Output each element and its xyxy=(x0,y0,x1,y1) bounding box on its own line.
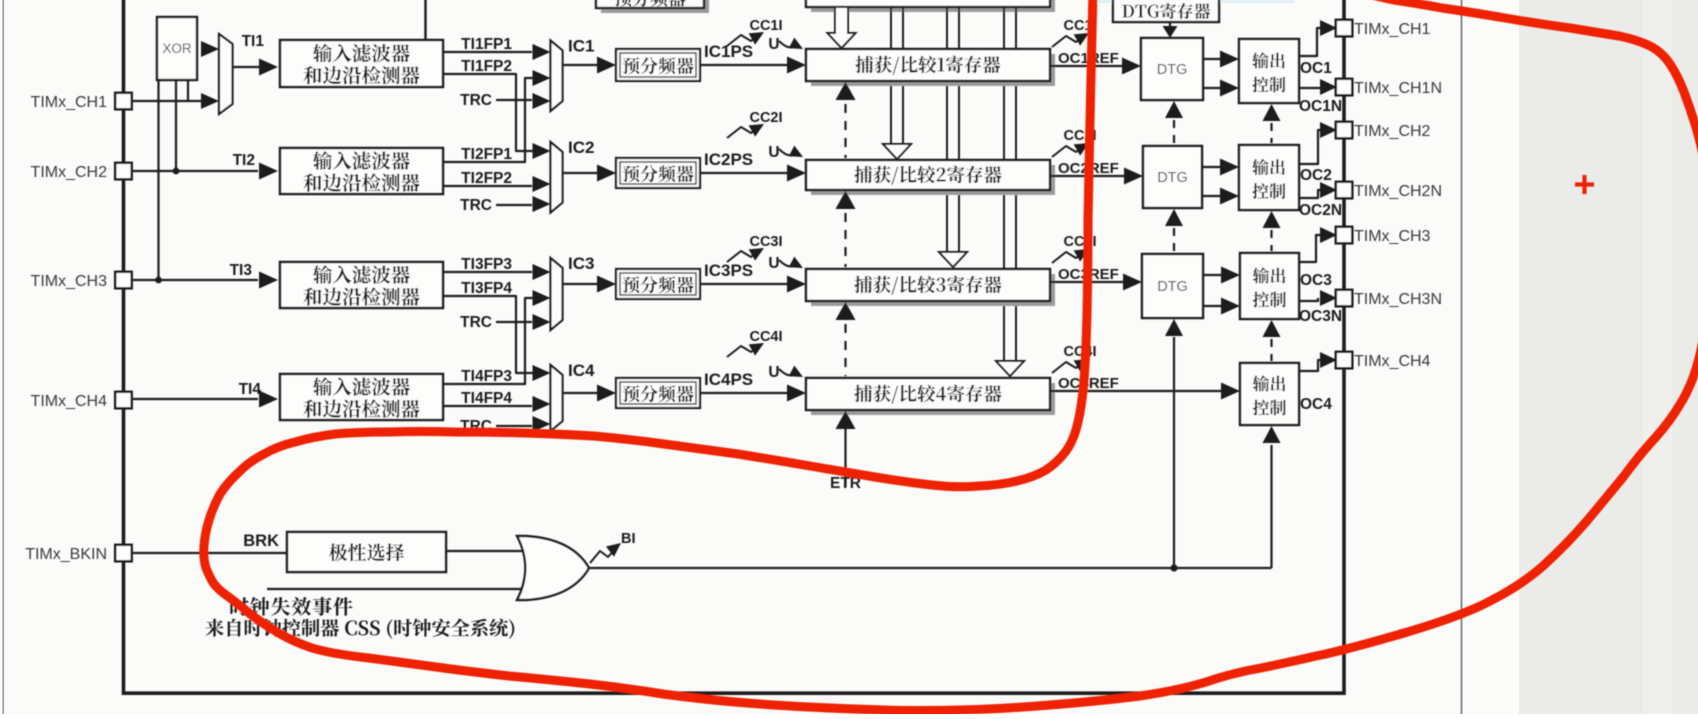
arrows DTG to output control row 1 xyxy=(1203,58,1222,60)
svg-text:OC2: OC2 xyxy=(1300,167,1332,184)
hollow arrow into capture register 2 xyxy=(883,144,911,159)
wire IC4 mux to prescaler xyxy=(563,392,599,394)
svg-text:TI4: TI4 xyxy=(239,381,262,398)
arrow up into register 3 bottom xyxy=(836,302,856,320)
svg-text:TIMx_CH2: TIMx_CH2 xyxy=(1354,123,1431,140)
arrow from DTG registers to DTG 1 xyxy=(1169,22,1171,30)
arrow into DTG2 bottom xyxy=(1165,209,1183,226)
hollow arrow into capture register 3 xyxy=(939,252,967,267)
arrow TI1 mux to input filter 1 xyxy=(233,66,260,68)
arrow into DTG3 bottom xyxy=(1165,319,1183,336)
arrow into OC3 bottom xyxy=(1263,320,1281,337)
input filter and edge detector box CH2 xyxy=(280,148,443,194)
svg-text:TI1FP2: TI1FP2 xyxy=(461,58,512,75)
capture/compare register 1 box xyxy=(811,54,1055,86)
wire TI2FP1 xyxy=(443,78,533,162)
wire TI2FP2 xyxy=(443,185,532,187)
wire OC4 to TIMx_CH4 pin xyxy=(1299,360,1321,371)
svg-text:IC4: IC4 xyxy=(568,361,595,380)
input filter and edge detector box CH3 xyxy=(280,262,443,308)
svg-text:BRK: BRK xyxy=(243,532,279,550)
svg-text:IC3PS: IC3PS xyxy=(704,261,753,280)
output control box row 4 xyxy=(1240,363,1299,425)
svg-text:TI3FP3: TI3FP3 xyxy=(461,256,512,273)
ETR line into capture register 4 xyxy=(844,429,846,487)
svg-text:TRC: TRC xyxy=(460,92,492,109)
BI zigzag arrow xyxy=(590,549,615,563)
svg-text:TIMx_BKIN: TIMx_BKIN xyxy=(25,546,107,563)
wire IC4PS prescaler to capture register xyxy=(700,392,788,394)
wire TIMx_CH4 to input filter 4 xyxy=(133,398,258,400)
svg-text:TI3FP4: TI3FP4 xyxy=(461,280,512,297)
dashed line below register 1 xyxy=(844,104,846,158)
prescaler box row 3 xyxy=(616,269,700,299)
svg-text:TIMx_CH1: TIMx_CH1 xyxy=(31,94,108,111)
arrows DTG to output control row 2 xyxy=(1202,166,1222,168)
svg-text:OC3N: OC3N xyxy=(1299,308,1342,325)
pin TIMx_CH1 right xyxy=(1336,20,1353,37)
bus line pair to capture register 3 xyxy=(946,7,948,254)
bus line pair to capture register 2 xyxy=(890,7,892,146)
wire IC2 mux to prescaler xyxy=(563,172,599,174)
svg-text:U: U xyxy=(768,144,779,161)
left page edge line xyxy=(2,0,4,714)
DTG box row 2 xyxy=(1143,146,1202,208)
svg-text:TI2FP1: TI2FP1 xyxy=(461,146,512,163)
pin TIMx_CH4 left xyxy=(115,392,132,409)
wire OC4REF register 4 to output control 4 xyxy=(1050,390,1221,392)
wire OC1 to TIMx_CH1 pin xyxy=(1299,28,1320,56)
svg-text:TIMx_CH3N: TIMx_CH3N xyxy=(1354,291,1442,308)
prescaler box (top, cropped) xyxy=(601,0,709,13)
wire OC3 to TIMx_CH3 pin xyxy=(1299,235,1320,262)
wire TRC row 4 xyxy=(496,425,532,427)
input filter and edge detector box CH4 xyxy=(280,374,443,420)
svg-text:OC1N: OC1N xyxy=(1299,98,1342,115)
DTG registers box xyxy=(1113,0,1219,22)
wire TI1FP2 (routed down) xyxy=(443,74,533,151)
svg-text:TRC: TRC xyxy=(460,197,492,214)
bus line pair to capture register 4 xyxy=(1003,7,1005,363)
wire OC3N to TIMx_CH3N pin xyxy=(1299,298,1318,301)
capture/compare register 2 box xyxy=(811,165,1055,195)
wire IC1PS prescaler to capture register xyxy=(700,64,788,66)
wire TI4FP4 xyxy=(443,405,532,407)
svg-text:TIMx_CH4: TIMx_CH4 xyxy=(31,393,108,410)
arrows DTG to output control row 3 xyxy=(1203,274,1223,276)
clock failure event wire to OR gate xyxy=(267,588,522,590)
wire IC1 mux to prescaler xyxy=(563,64,599,66)
video noise streak top xyxy=(1095,0,1295,3)
wire TRC row 2 xyxy=(496,204,532,206)
hollow arrow into capture register 4 xyxy=(996,361,1024,376)
wire OC2 to TIMx_CH2 pin xyxy=(1299,130,1321,164)
prescaler box row 1 xyxy=(616,49,700,81)
mux IC2 xyxy=(551,142,563,213)
OR gate xyxy=(517,536,589,600)
svg-text:IC2PS: IC2PS xyxy=(704,150,753,169)
svg-text:CC4I: CC4I xyxy=(1063,344,1096,360)
svg-text:TI1FP1: TI1FP1 xyxy=(461,36,512,53)
BI output wire xyxy=(588,567,1174,569)
pin TIMx_CH1N right xyxy=(1336,79,1353,96)
svg-text:TI1: TI1 xyxy=(242,33,265,50)
svg-text:CC2I: CC2I xyxy=(749,110,782,126)
solid feed line from break logic to DTG column xyxy=(1173,337,1175,568)
svg-text:IC4PS: IC4PS xyxy=(704,370,753,389)
output-control feed column: arrow into OC1 bottom xyxy=(1263,104,1281,121)
DTG feed column: arrow into DTG1 bottom xyxy=(1165,101,1183,118)
DTG box row 3 xyxy=(1142,254,1203,318)
svg-text:TIMx_CH4: TIMx_CH4 xyxy=(1354,353,1431,370)
svg-text:TI2: TI2 xyxy=(233,152,255,169)
dashed line below register 2 xyxy=(844,213,846,267)
wire OC2REF register to DTG row 2 xyxy=(1050,175,1125,177)
polarity selection box xyxy=(287,532,446,572)
svg-text:OC2N: OC2N xyxy=(1299,202,1342,219)
svg-text:TIMx_CH1: TIMx_CH1 xyxy=(1354,21,1431,38)
svg-text:XOR: XOR xyxy=(162,41,192,56)
pin TIMx_CH2 left xyxy=(115,163,132,180)
svg-text:OC4: OC4 xyxy=(1300,396,1332,413)
wire OC3REF register to DTG row 3 xyxy=(1050,281,1124,283)
pin TIMx_CH2 right xyxy=(1336,122,1353,139)
text from clock controller CSS xyxy=(205,619,514,639)
output control box row 1 xyxy=(1239,39,1299,103)
svg-text:CC3I: CC3I xyxy=(749,234,782,250)
XOR input stub from TIMx_CH2 xyxy=(175,80,177,171)
mux IC1 xyxy=(551,41,563,112)
svg-text:DTG: DTG xyxy=(1157,62,1188,78)
pin TIMx_CH3 right xyxy=(1336,227,1353,244)
svg-text:TIMx_CH2: TIMx_CH2 xyxy=(31,164,108,181)
capture/compare register 4 box xyxy=(811,383,1055,415)
red plus mark xyxy=(1575,182,1594,186)
pin TIMx_CH3N right xyxy=(1336,290,1353,307)
right gray panel xyxy=(1519,0,1698,714)
svg-text:TIMx_CH3: TIMx_CH3 xyxy=(31,273,108,290)
arrow up into register 1 bottom xyxy=(836,82,856,100)
pin TIMx_BKIN xyxy=(115,545,132,562)
svg-text:CC4I: CC4I xyxy=(749,329,782,345)
svg-text:TRC: TRC xyxy=(460,314,492,331)
svg-text:IC2: IC2 xyxy=(568,138,594,157)
column separator line xyxy=(1461,0,1463,714)
pin TIMx_CH1 left xyxy=(115,93,132,110)
wire TIMx_CH1 to mux xyxy=(133,100,201,102)
svg-text:TIMx_CH1N: TIMx_CH1N xyxy=(1354,80,1442,97)
wire OC1REF register to DTG row 1 xyxy=(1050,65,1123,67)
wire TIMx_BKIN to polarity selection xyxy=(133,552,287,554)
wire TI3FP3 xyxy=(443,271,532,273)
prescaler box row 2 xyxy=(616,158,700,188)
capture/compare register 3 box xyxy=(811,274,1055,306)
XOR input stub from TIMx_CH1 xyxy=(187,80,189,101)
svg-text:IC1: IC1 xyxy=(568,37,594,56)
XOR input stub from TIMx_CH3 xyxy=(157,80,159,280)
wire TI3FP4 (routed down) xyxy=(443,296,533,373)
wire IC3 mux to prescaler xyxy=(563,283,599,285)
prescaler box row 4 xyxy=(616,378,700,408)
TI1 selection mux xyxy=(219,34,233,114)
wire TI4FP3 xyxy=(443,298,533,384)
input filter and edge detector box CH1 xyxy=(280,40,443,87)
output control box row 3 xyxy=(1240,253,1299,319)
svg-text:TIMx_CH2N: TIMx_CH2N xyxy=(1354,183,1442,200)
svg-text:TI2FP2: TI2FP2 xyxy=(461,170,512,187)
svg-text:OC1: OC1 xyxy=(1300,60,1332,77)
TIMx block outer border xyxy=(124,0,1345,693)
pin TIMx_CH3 left xyxy=(115,272,132,289)
capture/compare preload box (top, cropped) xyxy=(811,0,1055,12)
wire IC3PS prescaler to capture register xyxy=(700,283,788,285)
svg-text:TIMx_CH3: TIMx_CH3 xyxy=(1354,228,1431,245)
svg-text:CC1I: CC1I xyxy=(749,18,782,34)
svg-text:BI: BI xyxy=(621,531,636,547)
arrow up into register 2 bottom xyxy=(836,191,856,209)
wire TI1FP1 xyxy=(443,51,532,53)
svg-text:U: U xyxy=(768,364,779,381)
svg-text:DTG: DTG xyxy=(1157,170,1188,186)
arrow into OC2 bottom xyxy=(1263,211,1281,228)
DTG box row 1 xyxy=(1141,38,1203,100)
text clock failure event xyxy=(230,597,352,616)
wire TIMx_CH2 to input filter 2 xyxy=(133,170,258,172)
XOR box xyxy=(157,17,197,80)
wire TRC row 3 xyxy=(496,321,532,323)
arrow into OC4 bottom xyxy=(1263,426,1281,443)
mux IC4 xyxy=(551,365,563,431)
wire OC1N to TIMx_CH1N pin xyxy=(1299,87,1320,89)
svg-text:TI3: TI3 xyxy=(230,262,253,279)
wire from trigger controller (cropped above) into input filter 1 xyxy=(424,0,426,41)
hollow arrow into capture register 1 xyxy=(828,7,856,48)
svg-text:U: U xyxy=(768,36,779,53)
svg-text:TI4FP4: TI4FP4 xyxy=(461,390,512,407)
BI feed wire horizontal xyxy=(1174,567,1272,569)
wire IC2PS prescaler to capture register xyxy=(700,172,788,174)
wire TIMx_CH3 to input filter 3 xyxy=(133,279,258,281)
output control box row 2 xyxy=(1239,145,1299,210)
pin TIMx_CH2N right xyxy=(1336,182,1353,199)
mux IC3 xyxy=(551,258,563,330)
wire polarity selection to OR gate xyxy=(446,550,522,552)
arrow XOR output to TI1 mux xyxy=(201,41,219,57)
svg-text:OC3: OC3 xyxy=(1300,272,1332,289)
svg-text:DTG: DTG xyxy=(1157,279,1188,295)
svg-text:U: U xyxy=(768,255,779,272)
pin TIMx_CH4 right xyxy=(1336,352,1353,369)
svg-text:TI4FP3: TI4FP3 xyxy=(461,368,512,385)
wire OC2N to TIMx_CH2N pin xyxy=(1299,190,1321,198)
dashed line below register 3 xyxy=(844,324,846,376)
wire TRC row 1 xyxy=(496,99,532,101)
svg-text:IC3: IC3 xyxy=(568,254,594,273)
